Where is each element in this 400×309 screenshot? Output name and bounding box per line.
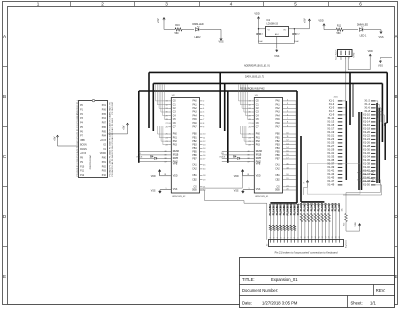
svg-text:PA1: PA1 xyxy=(193,103,198,106)
svg-text:X1-29: X1-29 xyxy=(327,148,334,152)
svg-text:1/1: 1/1 xyxy=(370,301,376,306)
svg-text:PB3: PB3 xyxy=(275,144,280,146)
svg-text:BOSN: BOSN xyxy=(80,144,87,146)
svg-text:1: 1 xyxy=(166,188,167,190)
svg-text:X1-12: X1-12 xyxy=(363,116,370,120)
svg-text:P84: P84 xyxy=(102,136,107,138)
svg-text:VPB: VPB xyxy=(173,164,178,166)
svg-text:Pin 21 broken to 'loops ported: Pin 21 broken to 'loops ported' connecti… xyxy=(275,250,338,254)
svg-text:PB0: PB0 xyxy=(275,134,280,136)
svg-text:10uF: 10uF xyxy=(294,41,299,43)
svg-text:P3.0/RXD P3.1/TXD P3.2/INT0 P3: P3.0/RXD P3.1/TXD P3.2/INT0 P3.3/INT1 P3… xyxy=(77,110,79,176)
svg-text:16: 16 xyxy=(322,236,324,238)
svg-text:4: 4 xyxy=(280,237,282,238)
svg-text:P1.7/KBD7: P1.7/KBD7 xyxy=(294,203,296,215)
svg-text:E: E xyxy=(3,274,6,279)
svg-text:P63: P63 xyxy=(256,144,261,146)
svg-text:VSS: VSS xyxy=(234,190,239,192)
svg-text:X1-17: X1-17 xyxy=(327,127,334,131)
svg-text:P10: P10 xyxy=(80,166,85,168)
svg-text:Expansion_01: Expansion_01 xyxy=(271,277,298,282)
svg-text:P1.8/K8: P1.8/K8 xyxy=(332,202,334,211)
svg-text:VDD: VDD xyxy=(368,50,373,53)
svg-text:X1-30: X1-30 xyxy=(363,148,370,152)
svg-text:X1-5: X1-5 xyxy=(329,106,335,110)
svg-text:R16: R16 xyxy=(175,24,180,27)
svg-text:PB6: PB6 xyxy=(192,155,197,157)
svg-text:PB3: PB3 xyxy=(192,144,197,146)
svg-text:+5V: +5V xyxy=(122,125,125,130)
svg-text:TVSW: TVSW xyxy=(354,52,356,58)
svg-text:560: 560 xyxy=(337,32,342,35)
svg-text:W65C02S_01: W65C02S_01 xyxy=(255,196,269,198)
svg-text:1: 1 xyxy=(270,237,272,238)
svg-text:P05: P05 xyxy=(102,114,107,116)
svg-text:P61: P61 xyxy=(173,137,178,139)
svg-text:P81: P81 xyxy=(102,162,107,164)
svg-text:PA5: PA5 xyxy=(276,118,281,121)
svg-text:X1-7: X1-7 xyxy=(329,109,335,113)
svg-text:X1-37: X1-37 xyxy=(327,162,334,166)
svg-text:X1-16: X1-16 xyxy=(363,123,370,127)
svg-text:VSS: VSS xyxy=(256,189,261,191)
svg-text:X1-22: X1-22 xyxy=(363,134,370,138)
svg-text:21: 21 xyxy=(339,236,341,238)
svg-text:CA1: CA1 xyxy=(192,163,197,166)
svg-text:PB4: PB4 xyxy=(192,148,197,150)
svg-text:ADDR/EVR_BUS_[0..X]: ADDR/EVR_BUS_[0..X] xyxy=(244,65,270,68)
svg-text:10k: 10k xyxy=(341,208,343,211)
svg-text:P10: P10 xyxy=(102,175,107,177)
svg-text:X1-33: X1-33 xyxy=(327,155,334,159)
svg-text:P62: P62 xyxy=(173,141,178,143)
svg-text:X1-19: X1-19 xyxy=(327,130,334,134)
svg-text:P06: P06 xyxy=(102,109,107,111)
svg-text:P1.3/KBD3: P1.3/KBD3 xyxy=(281,203,283,215)
svg-text:PB5: PB5 xyxy=(275,152,280,154)
svg-text:PA4: PA4 xyxy=(276,114,281,117)
svg-text:10uF: 10uF xyxy=(258,41,263,43)
svg-text:X1-15: X1-15 xyxy=(327,123,334,127)
svg-text:P1.0/KBD0: P1.0/KBD0 xyxy=(270,203,272,215)
svg-text:X1-18: X1-18 xyxy=(363,127,370,131)
svg-text:8: 8 xyxy=(303,182,304,184)
svg-text:P1.1/K1: P1.1/K1 xyxy=(308,202,310,211)
svg-text:10: 10 xyxy=(301,236,303,238)
svg-text:6: 6 xyxy=(287,237,289,238)
svg-text:ADJ: ADJ xyxy=(275,33,279,36)
svg-text:19: 19 xyxy=(332,236,334,238)
svg-text:DMM-LED: DMM-LED xyxy=(357,23,368,26)
svg-text:VDD0: VDD0 xyxy=(100,153,107,155)
svg-text:CB1: CB1 xyxy=(275,175,280,177)
svg-text:CA2: CA2 xyxy=(275,168,280,171)
svg-text:8: 8 xyxy=(294,237,296,238)
svg-text:3: 3 xyxy=(349,58,350,60)
svg-text:P04: P04 xyxy=(102,118,107,120)
svg-text:VSS: VSS xyxy=(173,189,178,191)
svg-text:VPB: VPB xyxy=(256,164,261,166)
svg-text:1: 1 xyxy=(37,2,40,7)
svg-text:VSS: VSS xyxy=(274,55,279,58)
svg-text:R33: R33 xyxy=(343,223,345,226)
svg-text:P2.0/A8 P2.1/A9 P2.2/A10 P2.3/: P2.0/A8 P2.1/A9 P2.2/A10 P2.3/A11 P2.4/A… xyxy=(111,117,114,176)
svg-text:B: B xyxy=(394,94,397,99)
svg-text:X1-40: X1-40 xyxy=(363,165,370,169)
svg-text:PB4: PB4 xyxy=(275,148,280,150)
svg-text:2000: 2000 xyxy=(334,97,338,99)
svg-text:X1-6: X1-6 xyxy=(364,106,370,110)
svg-text:PA0: PA0 xyxy=(193,100,198,103)
svg-text:PB1: PB1 xyxy=(275,137,280,139)
svg-text:X1-27: X1-27 xyxy=(327,144,334,148)
svg-text:X1-14: X1-14 xyxy=(363,120,370,124)
svg-text:+5V: +5V xyxy=(304,18,307,23)
svg-text:RWB: RWB xyxy=(256,158,262,160)
svg-text:316: 316 xyxy=(221,153,224,155)
svg-text:X1-1: X1-1 xyxy=(329,99,335,103)
svg-text:PA7: PA7 xyxy=(276,126,281,129)
svg-text:X1-13: X1-13 xyxy=(327,120,334,124)
svg-text:P60: P60 xyxy=(173,134,178,136)
svg-text:Sheet:: Sheet: xyxy=(351,301,363,306)
svg-text:E: E xyxy=(394,274,397,279)
svg-text:P86: P86 xyxy=(102,127,107,129)
svg-text:CB1: CB1 xyxy=(192,175,197,177)
svg-text:P1.8/KBD8: P1.8/KBD8 xyxy=(298,203,300,215)
svg-text:P63: P63 xyxy=(173,144,178,146)
svg-text:DATA_BUS_[0..7]: DATA_BUS_[0..7] xyxy=(245,75,264,78)
svg-text:316: 316 xyxy=(138,153,141,155)
svg-text:PA4: PA4 xyxy=(193,114,198,117)
svg-text:VSS: VSS xyxy=(378,36,383,39)
svg-text:X1-26: X1-26 xyxy=(363,141,370,145)
svg-text:CB2: CB2 xyxy=(192,179,197,181)
svg-text:VDD: VDD xyxy=(173,176,178,178)
svg-text:P1.6/KBD6: P1.6/KBD6 xyxy=(291,203,293,215)
svg-text:X1-9: X1-9 xyxy=(329,113,335,117)
svg-text:X1-41: X1-41 xyxy=(327,169,334,173)
svg-text:VBB: VBB xyxy=(80,140,85,142)
svg-text:P2.7/A15 RST: P2.7/A15 RST xyxy=(111,101,114,115)
svg-text:P12: P12 xyxy=(80,175,85,177)
svg-text:P1.9/K9: P1.9/K9 xyxy=(336,202,338,211)
svg-text:OEB: OEB xyxy=(275,190,280,192)
svg-text:VSS: VSS xyxy=(151,190,156,192)
svg-text:P1.7/K7: P1.7/K7 xyxy=(329,202,331,211)
svg-text:OEB: OEB xyxy=(192,190,197,192)
svg-text:P0.0/AD0 P0.1/AD1 P0.2/AD2 P0.: P0.0/AD0 P0.1/AD1 P0.2/AD2 P0.3/AD3 P0.4… xyxy=(109,112,112,176)
svg-text:P1.5/K5: P1.5/K5 xyxy=(322,202,324,211)
svg-text:X1-42: X1-42 xyxy=(363,169,370,173)
svg-text:P62: P62 xyxy=(256,141,261,143)
svg-text:CA1: CA1 xyxy=(275,163,280,166)
svg-text:X1-11: X1-11 xyxy=(327,116,334,120)
svg-text:560: 560 xyxy=(175,32,180,35)
svg-text:VSS: VSS xyxy=(378,65,383,68)
svg-text:X1-28: X1-28 xyxy=(363,144,370,148)
svg-text:X1-45: X1-45 xyxy=(327,176,334,180)
svg-text:28: 28 xyxy=(164,174,166,176)
svg-text:P1.5/KBD5: P1.5/KBD5 xyxy=(287,203,289,215)
svg-text:P80: P80 xyxy=(102,158,107,160)
svg-text:X1-24: X1-24 xyxy=(363,137,370,141)
svg-text:DMM-LED: DMM-LED xyxy=(192,23,203,26)
svg-text:D4: D4 xyxy=(233,154,237,158)
svg-text:1: 1 xyxy=(249,188,250,190)
svg-text:X1-20: X1-20 xyxy=(363,130,370,134)
svg-text:PB2: PB2 xyxy=(192,141,197,143)
svg-text:X1-50: X1-50 xyxy=(363,183,370,187)
svg-text:13: 13 xyxy=(312,236,314,238)
svg-text:20: 20 xyxy=(336,236,338,238)
svg-text:CA2: CA2 xyxy=(192,168,197,171)
svg-text:RWB: RWB xyxy=(173,158,179,160)
svg-text:LD1086-33: LD1086-33 xyxy=(267,23,279,25)
svg-text:P1.6/K6: P1.6/K6 xyxy=(325,202,327,211)
svg-text:P85: P85 xyxy=(102,131,107,133)
svg-text:X1-8: X1-8 xyxy=(364,109,370,113)
svg-text:P1.2/K2: P1.2/K2 xyxy=(312,202,314,211)
svg-text:PB6: PB6 xyxy=(275,155,280,157)
svg-text:4: 4 xyxy=(230,2,233,7)
svg-text:P0.7/AD7 XT1: P0.7/AD7 XT1 xyxy=(109,101,112,115)
svg-text:RESB: RESB xyxy=(173,151,180,153)
svg-text:9: 9 xyxy=(298,237,300,238)
svg-text:P61: P61 xyxy=(256,137,261,139)
svg-text:PA6: PA6 xyxy=(276,122,281,125)
svg-text:P1.4/K4: P1.4/K4 xyxy=(318,202,321,211)
svg-text:3: 3 xyxy=(277,237,279,238)
svg-text:CB2: CB2 xyxy=(275,179,280,181)
svg-text:X1-32: X1-32 xyxy=(363,151,370,155)
svg-text:P1.2/KBD2: P1.2/KBD2 xyxy=(277,203,279,215)
svg-text:RESB: RESB xyxy=(256,151,263,153)
svg-text:PB2: PB2 xyxy=(275,141,280,143)
svg-text:3: 3 xyxy=(165,2,168,7)
svg-text:X1-34: X1-34 xyxy=(363,155,370,159)
svg-text:X1-46: X1-46 xyxy=(363,176,370,180)
svg-text:X1-23: X1-23 xyxy=(327,137,334,141)
svg-text:PB5: PB5 xyxy=(192,152,197,154)
svg-text:PB7: PB7 xyxy=(275,159,280,161)
svg-text:CS: CS xyxy=(193,187,197,189)
svg-text:VDD: VDD xyxy=(254,13,259,16)
svg-text:P60: P60 xyxy=(256,134,261,136)
svg-text:PA3: PA3 xyxy=(193,111,198,114)
svg-text:VDD: VDD xyxy=(234,176,239,178)
svg-text:1/27/2018 3:05 PM: 1/27/2018 3:05 PM xyxy=(262,301,298,306)
svg-text:PA7: PA7 xyxy=(193,126,198,129)
svg-text:VDD: VDD xyxy=(151,176,156,178)
svg-text:VDD: VDD xyxy=(256,176,261,178)
svg-text:5: 5 xyxy=(294,2,297,7)
svg-text:6: 6 xyxy=(359,2,362,7)
svg-text:VSS: VSS xyxy=(218,40,223,43)
svg-text:X1-43: X1-43 xyxy=(327,172,334,176)
svg-text:X1-4: X1-4 xyxy=(364,102,370,106)
svg-text:1N4148: 1N4148 xyxy=(219,157,225,159)
svg-text:PA0: PA0 xyxy=(276,100,281,103)
svg-text:7: 7 xyxy=(291,237,293,238)
svg-text:P83: P83 xyxy=(102,171,107,173)
svg-text:P87: P87 xyxy=(102,123,107,125)
svg-text:+5V: +5V xyxy=(54,136,57,141)
svg-text:5: 5 xyxy=(284,237,286,238)
svg-text:P1.0/K0: P1.0/K0 xyxy=(305,202,307,211)
svg-text:IRQB: IRQB xyxy=(256,155,262,157)
svg-text:+OV3: +OV3 xyxy=(100,140,107,142)
svg-text:18: 18 xyxy=(329,236,331,238)
svg-text:X1-2: X1-2 xyxy=(364,99,370,103)
svg-text:CS: CS xyxy=(276,187,280,189)
svg-text:14: 14 xyxy=(315,236,317,238)
svg-text:Document Number:: Document Number: xyxy=(242,288,278,293)
svg-text:15: 15 xyxy=(318,236,320,238)
svg-text:PA3: PA3 xyxy=(276,111,281,114)
svg-text:+5V: +5V xyxy=(157,18,160,23)
svg-text:2: 2 xyxy=(101,2,104,7)
svg-text:P01: P01 xyxy=(102,105,107,107)
svg-text:X2: X2 xyxy=(266,244,268,246)
svg-text:+OV3: +OV3 xyxy=(80,153,87,155)
svg-text:VO: VO xyxy=(283,30,286,32)
svg-text:Date:: Date: xyxy=(242,301,252,306)
svg-text:LED2: LED2 xyxy=(195,36,202,39)
svg-text:VDD: VDD xyxy=(355,222,357,227)
svg-text:X1-38: X1-38 xyxy=(363,162,370,166)
svg-text:P1.3/K3: P1.3/K3 xyxy=(315,202,317,211)
svg-text:Keyboard: Keyboard xyxy=(345,240,348,248)
svg-text:PA5: PA5 xyxy=(193,118,198,121)
svg-text:PB7: PB7 xyxy=(192,159,197,161)
svg-text:PB0: PB0 xyxy=(192,134,197,136)
svg-text:X1-49: X1-49 xyxy=(327,183,334,187)
svg-text:B: B xyxy=(3,94,6,99)
svg-text:PA1: PA1 xyxy=(276,103,281,106)
svg-text:PA2: PA2 xyxy=(193,107,198,110)
svg-text:P82: P82 xyxy=(102,166,107,168)
svg-text:P1.1/KBD1: P1.1/KBD1 xyxy=(274,203,276,215)
svg-text:X1-39: X1-39 xyxy=(327,165,334,169)
svg-text:R11: R11 xyxy=(337,24,342,27)
svg-text:P80C552 DAC: P80C552 DAC xyxy=(89,154,92,169)
svg-text:W65C02S_02: W65C02S_02 xyxy=(172,196,186,198)
svg-text:P1.9/K9: P1.9/K9 xyxy=(301,202,303,211)
svg-text:TITLE:: TITLE: xyxy=(242,277,255,282)
svg-text:VDD: VDD xyxy=(318,20,323,23)
svg-text:X1-25: X1-25 xyxy=(327,141,334,145)
svg-text:11: 11 xyxy=(305,236,307,238)
svg-text:X1-21: X1-21 xyxy=(327,134,334,138)
svg-text:PA6: PA6 xyxy=(193,122,198,125)
svg-text:28: 28 xyxy=(247,174,249,176)
svg-text:12: 12 xyxy=(308,236,310,238)
svg-text:X1-31: X1-31 xyxy=(327,151,334,155)
svg-text:X1-3: X1-3 xyxy=(329,102,335,106)
svg-text:2: 2 xyxy=(274,237,276,238)
svg-text:X1-47: X1-47 xyxy=(327,179,334,183)
svg-text:REV:: REV: xyxy=(376,288,386,293)
svg-text:RGSN: RGSN xyxy=(80,149,87,151)
svg-text:PA2: PA2 xyxy=(276,107,281,110)
svg-text:17: 17 xyxy=(325,236,327,238)
svg-text:IRQB: IRQB xyxy=(173,155,179,157)
svg-text:Input Switch: Input Switch xyxy=(334,50,337,60)
svg-text:D4: D4 xyxy=(150,154,154,158)
svg-text:1N4148: 1N4148 xyxy=(136,157,142,159)
svg-text:PB1: PB1 xyxy=(192,137,197,139)
svg-text:P1.4/KBD4: P1.4/KBD4 xyxy=(283,203,286,215)
svg-text:X1-36: X1-36 xyxy=(363,158,370,162)
svg-text:P1.0/CEX0 P1.1: P1.0/CEX0 P1.1 xyxy=(77,99,79,114)
svg-text:X1-35: X1-35 xyxy=(327,158,334,162)
svg-text:LED 1: LED 1 xyxy=(360,35,367,38)
svg-text:X1-10: X1-10 xyxy=(363,113,370,117)
